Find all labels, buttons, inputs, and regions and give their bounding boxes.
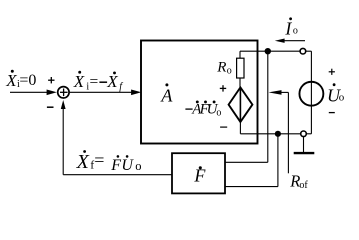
- svg-text:=0: =0: [19, 72, 36, 89]
- svg-text:o: o: [293, 25, 298, 36]
- svg-text:I: I: [284, 19, 292, 39]
- svg-text:o: o: [227, 65, 232, 76]
- svg-text:o: o: [339, 91, 345, 103]
- svg-text:F: F: [110, 157, 121, 174]
- svg-text:U: U: [121, 157, 134, 174]
- svg-text:=: =: [94, 150, 104, 170]
- svg-text:X: X: [73, 72, 85, 91]
- svg-text:=: =: [90, 73, 99, 90]
- svg-text:f: f: [119, 82, 123, 93]
- svg-text:o: o: [135, 159, 141, 173]
- svg-text:X: X: [5, 71, 17, 90]
- svg-text:o: o: [216, 108, 221, 119]
- svg-text:X: X: [106, 72, 118, 91]
- svg-text:A: A: [160, 85, 173, 105]
- svg-text:X: X: [76, 151, 90, 173]
- svg-text:R: R: [216, 60, 226, 76]
- svg-text:of: of: [299, 180, 308, 191]
